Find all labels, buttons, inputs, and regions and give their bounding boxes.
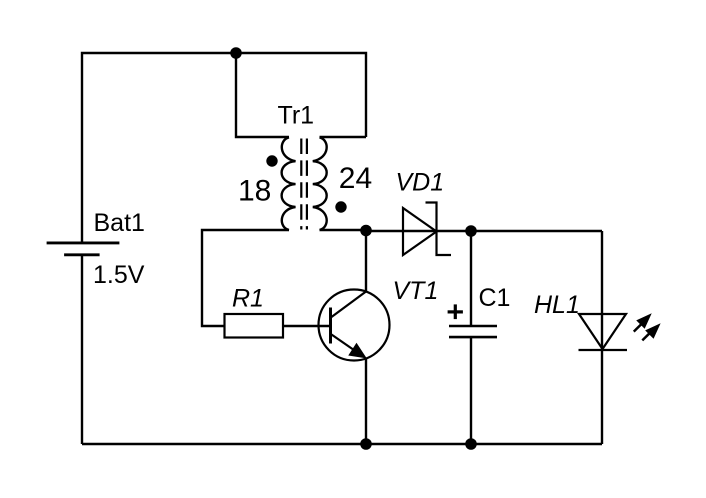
LED HL1 emission arrows	[634, 314, 660, 340]
LED HL1	[579, 314, 628, 350]
resistor R1	[225, 314, 284, 338]
wire emitter	[365, 358, 367, 444]
svg-text:Tr1: Tr1	[278, 102, 315, 130]
node capacitor-bottom junction	[465, 438, 477, 450]
wire primary bottom to resistor	[202, 230, 289, 326]
wire top rail	[82, 53, 366, 242]
capacitor C1	[449, 326, 497, 337]
wire diode row	[366, 230, 602, 232]
battery Bat1	[47, 243, 120, 255]
svg-text:18: 18	[238, 175, 271, 208]
transistor VT1	[319, 290, 390, 361]
transformer Tr1 secondary winding	[313, 137, 327, 230]
node diode-capacitor junction	[465, 225, 477, 237]
wire right rail	[601, 231, 603, 444]
svg-text:1.5V: 1.5V	[93, 261, 145, 289]
svg-text:VD1: VD1	[396, 169, 445, 197]
transformer Tr1 core	[301, 139, 307, 230]
svg-text:24: 24	[339, 162, 372, 195]
node top junction	[230, 47, 242, 59]
wire secondary bottom	[320, 229, 367, 231]
capacitor C1 plus sign	[448, 304, 463, 319]
svg-text:VT1: VT1	[393, 277, 439, 305]
wire capacitor top	[470, 231, 472, 325]
transformer Tr1 primary winding	[282, 137, 296, 230]
wire battery negative down	[81, 255, 83, 444]
diode VD1	[403, 203, 451, 256]
svg-text:C1: C1	[479, 284, 511, 312]
wire capacitor bottom	[470, 337, 472, 444]
node secondary-collector junction	[360, 225, 372, 237]
wire transformer secondary top	[320, 136, 367, 138]
wire bottom rail	[82, 443, 602, 445]
wire transformer primary top	[236, 53, 289, 137]
svg-text:R1: R1	[232, 285, 264, 313]
node primary phase dot	[266, 155, 277, 166]
node emitter-bottom junction	[360, 438, 372, 450]
svg-text:Bat1: Bat1	[94, 209, 145, 237]
svg-text:HL1: HL1	[534, 291, 580, 319]
wire base	[283, 325, 330, 327]
wire collector	[365, 230, 367, 292]
node secondary phase dot	[335, 201, 346, 212]
